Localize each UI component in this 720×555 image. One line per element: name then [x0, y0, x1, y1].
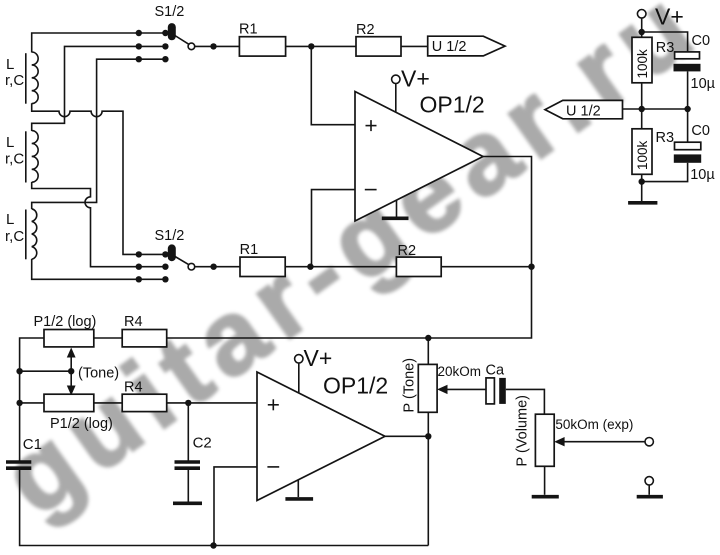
wire C0a bottom to mid rail [687, 71, 689, 109]
svg-text:C1: C1 [23, 436, 42, 453]
wire op-amp U1 output down to tone row [167, 157, 532, 339]
wire R2b to op-amp U1 output node [441, 264, 535, 270]
capacitor C2 [175, 403, 212, 502]
resistor R4 (top) [122, 314, 167, 347]
op-amp U2 OP1/2 [257, 372, 388, 501]
wire P(Tone) bottom to node C and bottom rail [427, 412, 429, 545]
svg-text:OP1/2: OP1/2 [420, 92, 485, 118]
svg-text:r,C: r,C [5, 72, 24, 89]
svg-text:r,C: r,C [5, 228, 24, 245]
output ground terminal [645, 477, 653, 495]
ground at supply divider [628, 201, 657, 205]
switch S1a [136, 4, 195, 62]
svg-text:V+: V+ [655, 4, 684, 30]
potentiometer P1/2 (log) bottom [44, 394, 113, 432]
svg-text:10µ: 10µ [691, 76, 716, 92]
wire P(Volume) bottom to ground [544, 466, 546, 495]
wire node on tone row to P(Tone) top [425, 335, 431, 365]
wire pickup1 bottom to switch S1b row1 (with hops) [32, 103, 166, 254]
svg-text:R3: R3 [656, 40, 675, 56]
resistor R2 (second) [396, 243, 441, 277]
resistor R1 (second) [240, 242, 286, 277]
svg-text:S1/2: S1/2 [155, 4, 185, 20]
resistor R3 (lower, 100k) [632, 129, 674, 175]
svg-text:P1/2 (log): P1/2 (log) [34, 314, 97, 330]
svg-text:P1/2 (log): P1/2 (log) [50, 416, 113, 432]
wire op-amp U2 output to node C [385, 433, 431, 439]
resistor R2 (top) [356, 22, 401, 56]
svg-text:R2: R2 [356, 22, 375, 38]
ground at U2 [285, 480, 313, 499]
wire op-amp U1 - input to node B [312, 190, 356, 267]
potentiometer P1/2 (log) top [34, 314, 97, 347]
svg-text:L: L [6, 56, 14, 73]
capacitor C1 [6, 436, 42, 468]
svg-text:V+: V+ [401, 66, 430, 92]
svg-text:r,C: r,C [5, 151, 24, 168]
svg-text:10µ: 10µ [690, 167, 715, 183]
svg-text:V+: V+ [304, 345, 333, 371]
wire R4b to op-amp U2 + input with C2 node [167, 400, 257, 406]
ground at P(Volume) [532, 495, 559, 499]
inductor L3 (pickup 3) [5, 209, 37, 259]
wire pot1b to R4b [94, 402, 122, 404]
svg-text:100k: 100k [635, 49, 650, 79]
svg-text:R1: R1 [239, 22, 258, 38]
wire R3b bottom to ground node [639, 174, 645, 201]
wiper arrow into P(Tone) [437, 385, 486, 394]
resistor R1 (top) [239, 22, 286, 57]
svg-text:U 1/2: U 1/2 [432, 39, 467, 55]
resistor R4 (bottom) [122, 379, 167, 411]
potentiometer P (Volume) [515, 395, 634, 466]
svg-text:guitar-gear.ru: guitar-gear.ru [0, 0, 720, 538]
wire left node to pot1b [20, 402, 44, 404]
wire pot1a to R4a [94, 337, 122, 339]
op-amp U1 OP1/2 [355, 92, 485, 222]
wire switch S1a row3 to pickup3 top [32, 59, 166, 209]
inductor L1 (pickup 1) [5, 52, 38, 104]
power terminal V+ of U2 [295, 345, 333, 393]
svg-text:L: L [6, 134, 14, 151]
wire S1b pole to R1b [195, 264, 240, 270]
wire mid rail to U1/2 tag [623, 108, 688, 110]
wire switch S1a row2 to pickup2 top [32, 46, 166, 131]
svg-text:20kOm: 20kOm [438, 364, 482, 379]
svg-text:R2: R2 [398, 243, 417, 259]
wire tone row1 left down to C1 [16, 338, 44, 461]
wire R2a to output tag U1/2 [401, 45, 428, 47]
wiper arrow into P(Volume) from output terminal [554, 437, 653, 446]
wire wiper feed (Tone) [20, 368, 75, 374]
inductor L2 (pickup 2) [5, 131, 38, 183]
wire pickup3 bottom to switch S1b row3 [32, 259, 166, 279]
capacitor C0 (lower, polarized) [674, 123, 716, 183]
power terminal V+ (supply) [637, 4, 683, 38]
resistor R3 (upper, 100k) [632, 37, 674, 83]
ground at output terminal [637, 495, 663, 499]
ground at U1 [382, 200, 409, 218]
wire node to op-amp U1 + input [311, 46, 355, 124]
wire S1a pole to R1a [195, 43, 240, 49]
wire V+ node to C0a top [642, 32, 688, 52]
input tag U1/2 (right) [545, 100, 623, 119]
power terminal V+ of U1 [392, 66, 430, 113]
svg-text:U 1/2: U 1/2 [566, 103, 601, 119]
wire R3a bottom to mid rail [639, 83, 691, 129]
svg-text:S1/2: S1/2 [155, 228, 185, 244]
wire R1b to R2b with node B [285, 264, 396, 270]
svg-text:OP1/2: OP1/2 [323, 372, 388, 398]
svg-text:R4: R4 [124, 314, 143, 330]
wire R1a to R2a with node [286, 43, 356, 49]
capacitor C0 (upper, polarized) [674, 33, 716, 92]
svg-text:C0: C0 [692, 33, 711, 49]
wire C0b bottom to ground node [642, 163, 688, 182]
switch S1b [136, 228, 195, 282]
svg-text:C0: C0 [691, 123, 710, 139]
svg-text:L: L [6, 211, 14, 228]
wire pickup2 bottom to switch S1b row2 (with hop) [32, 182, 166, 267]
svg-text:R4: R4 [124, 379, 143, 395]
wire C1 bottom along feedback bottom rail [20, 468, 429, 549]
svg-text:P (Tone): P (Tone) [402, 358, 418, 413]
svg-text:R1: R1 [240, 242, 259, 258]
svg-text:100k: 100k [635, 140, 650, 170]
output tag U1/2 (top) [428, 36, 505, 56]
svg-text:P (Volume): P (Volume) [515, 395, 531, 466]
svg-text:C2: C2 [193, 434, 212, 451]
ground at C2 [173, 501, 202, 505]
svg-text:Ca: Ca [486, 363, 505, 379]
wire op-amp U2 - input to bottom rail [214, 467, 257, 546]
capacitor Ca [486, 363, 506, 404]
svg-text:R3: R3 [656, 130, 675, 146]
potentiometer P (Tone) [402, 358, 482, 413]
svg-text:(Tone): (Tone) [78, 366, 119, 382]
svg-text:50kOm (exp): 50kOm (exp) [555, 417, 633, 432]
tone wiper double arrow [67, 348, 119, 396]
wire Ca to P(Volume) top [506, 389, 545, 414]
wire C0b top to mid rail [687, 109, 689, 142]
wire pickup1 top to switch S1a row1 [32, 33, 168, 53]
